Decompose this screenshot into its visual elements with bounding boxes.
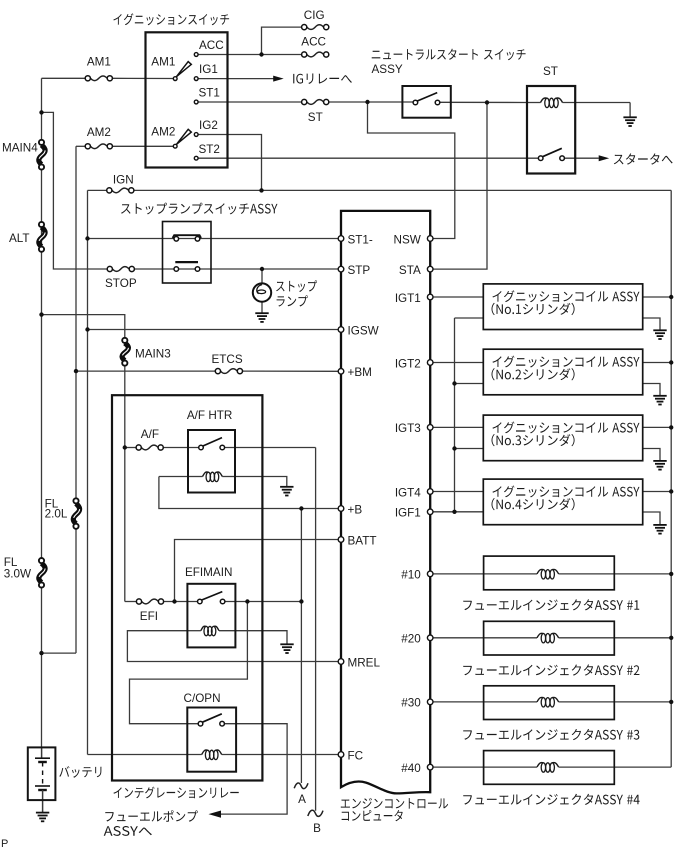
- svg-text:STA: STA: [399, 264, 421, 277]
- svg-text:#40: #40: [401, 762, 421, 775]
- svg-text:ACC: ACC: [301, 36, 326, 49]
- svg-text:IGT4: IGT4: [395, 486, 421, 499]
- svg-text:+B: +B: [348, 503, 363, 516]
- svg-text:#30: #30: [401, 697, 421, 710]
- svg-text:ST: ST: [543, 65, 558, 78]
- svg-text:A: A: [298, 793, 306, 806]
- svg-text:FC: FC: [348, 749, 364, 762]
- svg-text:ALT: ALT: [9, 232, 30, 245]
- svg-text:A/F: A/F: [141, 428, 159, 441]
- svg-text:STOP: STOP: [105, 277, 137, 290]
- svg-text:ASSY: ASSY: [372, 63, 403, 76]
- svg-text:IGT3: IGT3: [395, 422, 421, 435]
- svg-text:AM2: AM2: [151, 125, 175, 138]
- svg-text:MREL: MREL: [348, 656, 381, 669]
- svg-text:B: B: [313, 822, 321, 835]
- svg-text:ST: ST: [308, 111, 323, 124]
- svg-text:ETCS: ETCS: [212, 353, 243, 366]
- svg-text:MAIN4: MAIN4: [2, 141, 38, 154]
- svg-text:AM2: AM2: [87, 126, 111, 139]
- svg-text:IGSW: IGSW: [348, 324, 379, 337]
- svg-text:IG1: IG1: [199, 63, 218, 76]
- svg-text:AM1: AM1: [87, 55, 111, 68]
- svg-text:EFI: EFI: [140, 610, 158, 623]
- svg-text:A/F HTR: A/F HTR: [187, 409, 232, 422]
- svg-text:3.0W: 3.0W: [4, 567, 31, 580]
- svg-text:#10: #10: [401, 569, 421, 582]
- svg-text:IGF1: IGF1: [395, 507, 421, 520]
- svg-text:IG2: IG2: [199, 119, 218, 132]
- svg-text:ST1-: ST1-: [348, 233, 373, 246]
- svg-text:MAIN3: MAIN3: [135, 348, 171, 361]
- svg-text:C/OPN: C/OPN: [184, 692, 221, 705]
- svg-text:2.0L: 2.0L: [45, 507, 68, 520]
- svg-text:NSW: NSW: [394, 233, 421, 246]
- svg-text:ST2: ST2: [199, 143, 220, 156]
- svg-text:IGT1: IGT1: [395, 292, 421, 305]
- svg-text:BATT: BATT: [348, 534, 377, 547]
- svg-text:ST1: ST1: [199, 87, 220, 100]
- svg-text:ACC: ACC: [199, 39, 224, 52]
- svg-text:+BM: +BM: [348, 366, 372, 379]
- svg-text:EFIMAIN: EFIMAIN: [185, 566, 232, 579]
- svg-text:IGT2: IGT2: [395, 357, 421, 370]
- svg-text:IGN: IGN: [113, 174, 134, 187]
- svg-text:AM1: AM1: [151, 55, 175, 68]
- svg-text:STP: STP: [348, 264, 371, 277]
- svg-text:#20: #20: [401, 633, 421, 646]
- svg-text:P: P: [1, 838, 8, 850]
- svg-text:CIG: CIG: [304, 9, 325, 22]
